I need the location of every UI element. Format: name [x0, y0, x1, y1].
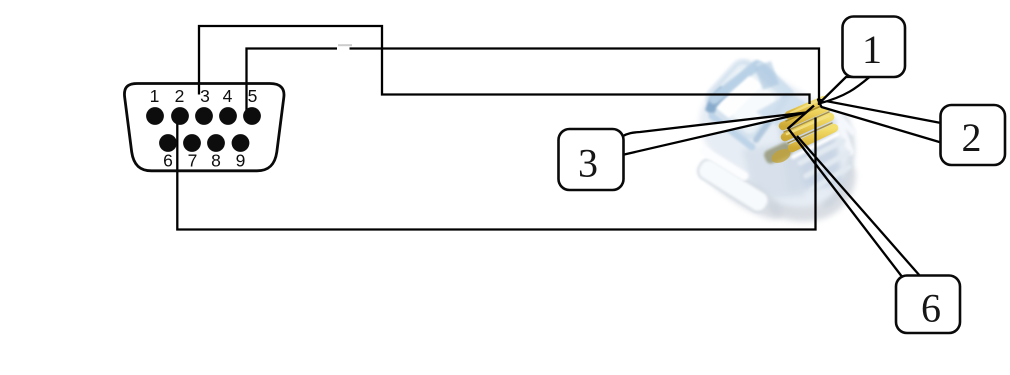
callout box 1 [843, 17, 906, 78]
top face white highlight [716, 76, 762, 118]
DB9 pin 7 [183, 134, 201, 152]
svg-text:1: 1 [150, 86, 160, 106]
DB9 pin 2 [171, 107, 189, 125]
leader to callout 2 [818, 100, 941, 143]
DB9 pin 4 [219, 107, 237, 125]
plug ambient body [700, 60, 852, 212]
svg-text:2: 2 [962, 115, 982, 160]
callout box 2 [941, 105, 1006, 165]
latch shadow [697, 156, 788, 228]
ring lower-left edge band [712, 116, 752, 147]
DB9 pin 3 [195, 107, 213, 125]
svg-text:4: 4 [223, 86, 233, 106]
callout box 3 [559, 129, 624, 190]
svg-text:3: 3 [200, 86, 210, 106]
plug drop shadow lower right [768, 162, 856, 222]
gold lower blob [769, 146, 792, 165]
ring left corner accent [705, 86, 730, 116]
leader to callout 6 knot link [788, 106, 815, 130]
svg-text:6: 6 [921, 286, 941, 331]
gold contact 4 [792, 128, 834, 148]
svg-text:9: 9 [236, 151, 246, 171]
svg-text:2: 2 [175, 86, 185, 106]
RJ11 plug photo [695, 57, 856, 228]
svg-text:8: 8 [211, 151, 221, 171]
DB9 pin 5 [243, 107, 261, 125]
svg-text:6: 6 [163, 151, 173, 171]
gold contact 1 [789, 100, 824, 115]
leader to callout 6 left line [789, 130, 903, 279]
DB9 pin 8 [207, 134, 225, 152]
callout box 6 [896, 276, 960, 334]
leader to callout 6 right line [797, 136, 921, 277]
front white rib highlight [793, 134, 838, 157]
side blue band [756, 93, 810, 126]
body right shading [778, 106, 844, 192]
ring upper-left edge band [714, 65, 757, 99]
DB9 pin 9 [232, 134, 250, 152]
front ribs [800, 141, 849, 189]
svg-text:3: 3 [578, 141, 598, 186]
leader to callout 1 [819, 77, 870, 104]
gold contact 2 [783, 107, 827, 126]
DB9 connector J1 outline [124, 84, 284, 171]
body lower mid shading [742, 140, 806, 200]
ring lower-right edge band [756, 97, 787, 140]
DB9 pin 6 [159, 134, 177, 152]
leader to callout 3 [622, 113, 806, 156]
gold highlights [787, 99, 828, 134]
svg-text:7: 7 [188, 151, 198, 171]
DB9 pin 1 [146, 107, 164, 125]
wire DB9 pin5 to RJ contact 1 (with gap) [247, 49, 820, 112]
top face panel [704, 57, 788, 140]
gold contact separators [784, 104, 832, 143]
latch tip white [704, 151, 744, 176]
inner blue cable patch [755, 61, 779, 90]
gold contact 3 [785, 117, 830, 137]
svg-text:5: 5 [248, 86, 258, 106]
inner wires olive patch [762, 141, 793, 166]
wire DB9 pin2 to RJ contact 2 [177, 118, 815, 230]
wire DB9 pin3 to RJ contact 1 [199, 26, 810, 104]
body right silhouette edge [824, 115, 852, 206]
wire gap smudge [338, 44, 352, 46]
latch tab [695, 156, 772, 215]
white teeth right of contacts [834, 112, 853, 152]
svg-text:1: 1 [862, 27, 882, 72]
ring upper-right edge hint [761, 66, 789, 93]
